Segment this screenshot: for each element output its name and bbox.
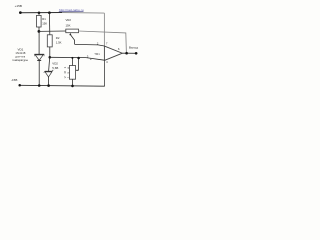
svg-text:VD2: VD2 — [52, 61, 58, 65]
wire non-inverting input (pin 3) — [50, 57, 105, 60]
svg-text:температуры: температуры — [12, 59, 28, 62]
label VR1 value (rotated) — [63, 66, 70, 78]
node junction VR1 top / pin3 wire — [71, 57, 73, 59]
wire node down to VD1 — [38, 31, 40, 54]
node junction VD1/rail — [38, 84, 41, 87]
background — [0, 0, 150, 100]
svg-text:+15В: +15В — [15, 4, 22, 8]
wire feedback VR2 right terminal to output — [79, 31, 127, 53]
wire -15V bottom rail — [19, 84, 105, 87]
svg-text:-15В: -15В — [11, 78, 17, 82]
wire +15V top rail (black part) — [19, 12, 62, 14]
svg-text:Выход: Выход — [129, 46, 138, 50]
svg-text:+: + — [90, 57, 92, 61]
wire +15V rail gray continuation to op-amp V+ — [62, 12, 104, 15]
label R2 value — [56, 36, 62, 44]
potentiometer VR1 — [69, 58, 78, 86]
svg-text:15K: 15K — [66, 24, 71, 28]
diode VD1 — [34, 54, 44, 60]
wire node to VR2 left terminal — [39, 30, 66, 32]
zener diode VD2 — [44, 57, 53, 85]
svg-text:1N4148: 1N4148 — [15, 51, 26, 55]
node output terminal dot — [135, 52, 138, 55]
svg-text:VR2: VR2 — [66, 18, 72, 22]
wire inverting input (pin 2) — [75, 44, 105, 46]
node rail terminal dot — [18, 84, 21, 87]
svg-text:VD1: VD1 — [17, 47, 23, 51]
svg-text:15K: 15K — [42, 21, 47, 25]
wire V+ vertical drop to pin 7 — [103, 13, 105, 46]
node junction VD2/rail — [47, 84, 50, 87]
node junction VR1 wiper / pin3 wire — [77, 57, 80, 60]
wire output — [122, 52, 137, 54]
op-amp TM1 — [104, 46, 122, 60]
label VD1 designator block — [12, 47, 28, 62]
node junction R1 bottom — [38, 30, 41, 33]
node junction VR1/rail — [71, 85, 74, 88]
label R1 value — [42, 17, 47, 25]
potentiometer VR2 — [66, 29, 79, 44]
label VD2 value — [52, 61, 58, 70]
wire pin 4 to negative rail — [104, 60, 106, 87]
node junction R2/rail — [48, 11, 51, 14]
node junction R1/rail — [38, 12, 41, 15]
node junction R2/VD2/pin3 — [49, 56, 52, 59]
resistor R1 — [37, 13, 42, 30]
svg-text:5,6В: 5,6В — [52, 66, 58, 70]
resistor R2 — [47, 13, 52, 58]
node junction output/feedback — [125, 52, 128, 55]
wire VD1 to bottom rail — [38, 60, 40, 85]
node rail terminal dot — [19, 11, 22, 14]
label VR2 value — [66, 18, 72, 28]
svg-text:TM1: TM1 — [94, 52, 100, 56]
svg-text:1,5K: 1,5K — [56, 41, 62, 45]
